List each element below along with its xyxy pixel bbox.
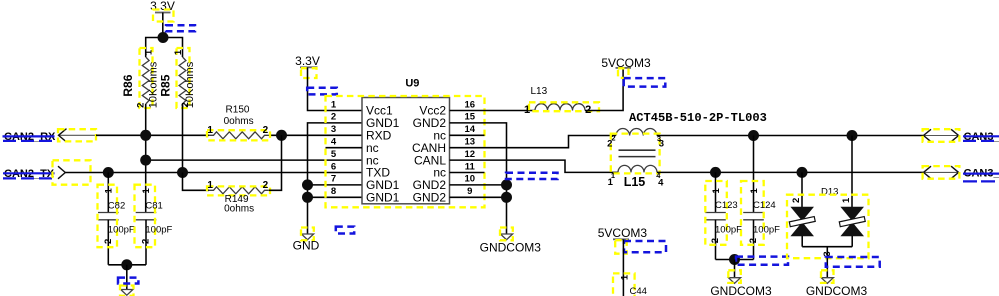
wire D13 center tap to GNDCOM3 [826,247,828,278]
blue selection mark near Vcc1 wire [307,88,337,95]
junction node CANH / C124 [748,130,759,141]
port CAN2_RX (off-page connector, left) [3,129,97,144]
junction node CANL / D13 [797,167,808,178]
port CAN3_TX (off-page connector, right bottom) [923,166,999,181]
junction node TX / C82 [103,167,114,178]
wire U9 pin13 (CANH) to choke L15 [450,136,617,148]
capacitor C123 100pF [705,172,742,259]
svg-text:11: 11 [465,161,476,172]
power symbol 3.3V (left, above R86/R85) [150,0,175,37]
junction node GND1 pin8 [302,192,313,203]
wire CAN2_RX to R150 and U9 pin3 [96,134,209,136]
wire C82/C81 bottoms joined [108,264,146,266]
junction node pin5 / R86-C81 [140,155,151,166]
port CAN2_TX (off-page connector, left) [3,160,91,184]
blue selection mark near D13 ground [826,257,880,267]
svg-text:1: 1 [619,274,630,280]
svg-text:1: 1 [331,99,337,110]
svg-text:1: 1 [104,187,115,193]
wire CANL after choke to CAN3 port [657,171,924,173]
wire L13 to 5VCOM3 [585,68,623,111]
svg-text:1: 1 [524,104,530,116]
blue selection mark near pin10 [506,173,558,179]
svg-text:14: 14 [465,124,476,135]
power symbol 5VCOM3 (bottom) [598,226,648,254]
resistor R85 10Kohms [158,48,196,108]
svg-text:C44: C44 [630,286,647,296]
svg-text:3: 3 [331,124,336,135]
svg-text:R86: R86 [121,74,135,96]
svg-text:100pF: 100pF [108,224,135,235]
svg-text:2: 2 [103,239,114,244]
capacitor C81 100pF [135,185,173,265]
resistor R86 10Kohms [121,48,160,108]
svg-text:4: 4 [331,137,337,148]
svg-text:13: 13 [465,137,476,148]
svg-text:4: 4 [658,178,664,189]
junction node GND2 pin9 [501,192,512,203]
svg-text:2: 2 [791,198,802,203]
svg-text:7: 7 [331,174,336,185]
svg-text:100pF: 100pF [145,224,172,235]
blue selection mark near bottom 5VCOM3 [624,241,666,252]
wire C123/C124 bottoms joined [716,259,754,261]
svg-text:1: 1 [173,49,184,55]
svg-text:12: 12 [465,149,476,160]
svg-text:GND: GND [293,238,320,252]
junction node RXD / R149-R150 [276,130,287,141]
svg-text:GND1: GND1 [366,191,400,205]
resistor R150 0ohms [207,104,270,140]
blue selection mark near 3.3V node [166,25,195,31]
junction node CANL / C123 [710,167,721,178]
svg-text:GND2: GND2 [413,191,447,205]
wire U9 pin7 (GND1) [308,184,363,186]
power symbol 3.3V (above U9 pin1) [295,54,320,78]
common-mode choke L15 ACT45B [607,128,664,188]
svg-text:3.3V: 3.3V [150,0,175,13]
wire U9 pin15 (GND2) down to GNDCOM3 [450,123,507,234]
blue selection mark near 5VCOM3 [624,78,666,87]
svg-text:10Kohms: 10Kohms [184,61,196,108]
svg-text:6: 6 [331,161,336,172]
junction node RX / R86 [140,130,151,141]
svg-text:2: 2 [135,103,146,108]
svg-text:3: 3 [659,138,664,149]
svg-text:15: 15 [465,112,476,123]
svg-text:0ohms: 0ohms [224,116,254,127]
svg-text:C123: C123 [715,200,738,211]
svg-text:9: 9 [467,186,472,197]
junction dot 3.3V rail [158,32,169,43]
capacitor C82 100pF [98,173,135,265]
wire R85/TX node down to R149 [183,173,210,191]
svg-text:16: 16 [465,99,476,110]
svg-text:GNDCOM3: GNDCOM3 [480,241,542,255]
ground symbol (below C82/C81) [120,265,134,296]
capacitor C44 (partially cut at bottom) [613,273,647,296]
svg-text:3.3V: 3.3V [295,54,320,68]
ground symbol GND (below U9 left) [293,228,320,253]
svg-text:5: 5 [331,149,337,160]
svg-text:0ohms: 0ohms [224,203,254,214]
ground symbol GNDCOM3 (below D13) [806,270,868,296]
svg-text:2: 2 [263,125,269,136]
TVS diode D13 (dual bidirectional suppressor) [787,136,869,259]
svg-text:1: 1 [141,187,152,193]
svg-text:100pF: 100pF [753,224,780,235]
svg-text:2: 2 [331,112,336,123]
wire U9 pin10 (GND2) [450,184,507,186]
svg-text:2: 2 [710,238,721,243]
wire R86 bottom lead down to C81 (through RX and pin5 nets) [145,104,147,213]
svg-text:U9: U9 [405,77,419,89]
junction node GND2 pin10 [501,179,512,190]
pin stubs nc pins [326,147,363,149]
junction node TX / R85 / R149 [177,167,188,178]
svg-text:1: 1 [749,187,760,193]
svg-text:R85: R85 [158,74,172,96]
wire U9 pin9 (GND2) [450,196,507,198]
svg-text:1: 1 [711,187,722,193]
svg-text:C82: C82 [108,200,125,211]
svg-text:GNDCOM3: GNDCOM3 [806,284,868,296]
svg-text:L13: L13 [530,86,547,97]
wire 5VCOM3 down to C44 [622,239,624,296]
svg-text:100pF: 100pF [715,224,742,235]
svg-text:2: 2 [263,180,269,191]
svg-text:8: 8 [331,186,336,197]
junction node caps to GND [121,259,132,270]
capacitor C124 100pF [741,136,780,260]
svg-text:2: 2 [180,102,191,107]
blue selection mark near GND [336,227,354,234]
svg-text:C81: C81 [145,200,162,211]
svg-text:R150: R150 [226,104,250,115]
wire U9 pin8 (GND1) [308,196,363,198]
svg-text:L15: L15 [624,175,646,189]
junction node GND1 pin7 [302,179,313,190]
svg-text:10: 10 [465,174,476,185]
svg-text:GNDCOM3: GNDCOM3 [710,284,772,296]
wire R149 right lead up to RXD node [269,135,282,190]
svg-text:1: 1 [207,180,213,191]
wire U9 pin2 (GND1) to ground [308,123,363,234]
junction node caps to GNDCOM3 [729,254,740,265]
wire CAN2_TX to U9 pin6 (TXD) [65,172,362,174]
svg-text:2: 2 [141,239,152,244]
svg-text:1: 1 [143,49,154,55]
svg-text:2: 2 [607,138,612,149]
svg-text:D13: D13 [821,187,838,198]
svg-text:1: 1 [608,177,614,188]
junction node CANH / D13 [847,130,858,141]
inductor L13 [524,86,599,116]
wire U9 pin16 (Vcc2) to L13 [450,110,536,112]
op-amp U9 (CAN transceiver IC) [326,77,485,207]
blue selection mark near caps ground [736,257,788,265]
svg-text:5VCOM3: 5VCOM3 [598,226,648,240]
wire U9 pin12 (CANL) to choke L15 [450,160,619,172]
wire R85 bottom lead down to TX net [182,104,184,173]
svg-text:ACT45B-510-2P-TL003: ACT45B-510-2P-TL003 [629,111,767,125]
ground symbol GNDCOM3 (below U9 right) [480,228,542,255]
blue selection mark near bottom ground [118,278,138,284]
wire pin5 net from R86/C81 node to U9 [146,159,362,161]
port CAN3_RX (off-page connector, right top) [923,129,999,143]
power symbol 5VCOM3 (top) [601,56,651,78]
wire 3.3V rail to R86/R85 tops [146,38,183,58]
svg-text:C124: C124 [753,200,776,211]
wire CANH after choke to CAN3 port [657,135,924,137]
wire 3.3V to U9 pin1 (Vcc1) [308,67,363,110]
svg-text:1: 1 [207,125,213,136]
ground symbol GNDCOM3 (below C123/C124) [710,260,772,296]
svg-text:2: 2 [748,238,759,243]
svg-text:1: 1 [841,197,852,203]
resistor R149 0ohms [207,180,270,215]
